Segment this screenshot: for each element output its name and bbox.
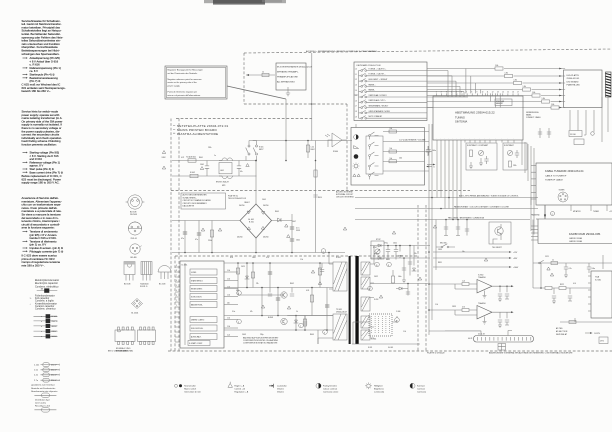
resistor R861 1.8k (505, 74, 513, 77)
bridge diode bottom-right (261, 226, 264, 229)
svg-text:C643: C643 (242, 334, 246, 336)
contrast preset box 1 (466, 143, 497, 170)
svg-text:Luminosità: Luminosità (374, 391, 385, 394)
IC631 right side resistors (224, 271, 238, 273)
svg-text:Helligkeit: Helligkeit (374, 385, 383, 388)
resistor into op-amp2 (462, 309, 469, 312)
svg-text:1.6: 1.6 (355, 100, 357, 102)
control panel rows to bundle (425, 132, 433, 172)
connection cable note (526, 112, 542, 119)
svg-text:SEZIONE AT: SEZIONE AT (556, 333, 568, 336)
svg-text:GRÜN / RGB: GRÜN / RGB (569, 237, 583, 240)
transistor package TO-66 top view (128, 222, 141, 240)
wire into IR preamp with arrow (246, 74, 275, 76)
svg-text:630V~: 630V~ (52, 331, 59, 333)
svg-text:ALT(ERN.) + FERNBEDIENUNG / RE: ALT(ERN.) + FERNBEDIENUNG / REMOTE CONTR… (306, 50, 378, 53)
svg-text:470u: 470u (384, 243, 388, 245)
tuning box top pins (437, 93, 519, 96)
cap C603 (183, 232, 187, 234)
svg-text:U-REF.: U-REF. (191, 272, 197, 274)
svg-text:GRÜN STANDARD / NORM: GRÜN STANDARD / NORM (369, 110, 391, 113)
svg-text:11: 11 (487, 92, 489, 94)
fuse SI602 (190, 174, 198, 177)
cap cluster mid secondary (400, 246, 414, 271)
svg-text:REGELVERST.: REGELVERST. (191, 288, 203, 290)
supply rail +12V (433, 251, 510, 253)
svg-text:500V-: 500V- (52, 336, 58, 338)
rectifier diode D663 (378, 257, 381, 260)
svg-text:1k: 1k (262, 72, 264, 74)
svg-text:SI 602: SI 602 (190, 172, 195, 174)
italian bullet list (23, 230, 65, 254)
svg-text:AUSSCHALT.: AUSSCHALT. (191, 335, 202, 338)
svg-text:GL 2504: GL 2504 (131, 313, 138, 315)
cable bundle verticals (522, 140, 534, 205)
svg-text:misure sul primario dell'alime: misure sul primario dell'alimentatore. (168, 94, 202, 97)
chopper transformer TR631 primary winding upper (333, 262, 347, 291)
gnd stubs under caps cluster (444, 234, 460, 236)
circled test point 6 near opto (395, 318, 400, 323)
IR receiver diode assembly (325, 133, 347, 147)
arrow out of panel (427, 164, 433, 166)
svg-text:Contrasto colore: Contrasto colore (323, 391, 339, 394)
panel resistor 10k a (389, 130, 397, 133)
svg-text:10k: 10k (390, 158, 393, 160)
resistor 1k row (551, 262, 558, 265)
svg-text:15: 15 (507, 92, 509, 94)
svg-text:K-START CONST.: K-START CONST. (189, 342, 203, 345)
op-amp1 gnd pin (483, 291, 487, 299)
svg-text:schwingen des Sperrwandlers.: schwingen des Sperrwandlers. (22, 52, 60, 56)
svg-text:1.8k: 1.8k (505, 73, 508, 75)
cap C608 (290, 239, 294, 241)
svg-text:Regler + A: Regler + A (234, 385, 244, 388)
svg-text:Volume: Volume (277, 389, 285, 391)
switch S89 row (359, 117, 361, 119)
svg-text:FARBE +: FARBE + (369, 83, 376, 86)
svg-text:IC 661: IC 661 (371, 339, 376, 341)
svg-text:LED BOARD: LED BOARD (567, 80, 580, 83)
tuner DIN connector circle (558, 190, 568, 203)
svg-text:10k: 10k (390, 128, 393, 130)
suppression capacitor rows outlined (34, 363, 60, 383)
svg-text:+12: +12 (609, 211, 612, 213)
svg-text:D4/250: D4/250 (263, 237, 269, 239)
symbol sun brightness (353, 163, 360, 170)
svg-text:1.8k: 1.8k (532, 92, 535, 94)
svg-text:CIRCUIT NOT MAINS ISOLATED: CIRCUIT NOT MAINS ISOLATED (183, 199, 212, 202)
svg-text:T2.5A SI 601: T2.5A SI 601 (186, 156, 196, 159)
keyboard switch rows (359, 67, 428, 119)
resistor on branch (314, 170, 317, 177)
svg-text:INFRARED PREAMPL.: INFRARED PREAMPL. (277, 71, 299, 74)
italian tail lines (22, 254, 61, 268)
switch S82 row (359, 80, 361, 82)
svg-text:R601: R601 (199, 157, 203, 159)
svg-text:SEL 830: SEL 830 (440, 243, 446, 245)
keyboard left bus (354, 71, 359, 119)
svg-text:n: n (41, 331, 42, 333)
svg-text:Negative reference point for m: Negative reference point for measure- (168, 78, 203, 81)
svg-text:4.7n: 4.7n (266, 257, 269, 259)
warning triangle mains left 2 (162, 166, 165, 169)
resistor R643 (303, 319, 306, 326)
thyristor symbol on B+ (278, 218, 282, 222)
circled test point 7 (299, 323, 304, 328)
svg-text:1.8/12V: 1.8/12V (594, 333, 601, 335)
svg-text:R605: R605 (275, 211, 279, 213)
distributor note (35, 399, 50, 408)
svg-text:100n: 100n (398, 276, 402, 278)
svg-text:IC 830: IC 830 (478, 274, 483, 276)
svg-text:220k: 220k (208, 147, 212, 149)
svg-text:P-GRÜN - / LAUTST. -: P-GRÜN - / LAUTST. - (369, 73, 386, 76)
svg-text:C 666: C 666 (396, 311, 400, 313)
svg-text:Punto di riferimento negativo: Punto di riferimento negativo per (168, 91, 198, 94)
wire top corner of bridge (255, 161, 257, 205)
connection keyboard bus into tuning left edge (427, 108, 433, 197)
svg-text:power supply.: power supply. (168, 84, 181, 87)
circled test point 1 (237, 291, 242, 296)
junction dots on minus bus (184, 252, 186, 254)
switch S87 row (359, 107, 361, 109)
svg-text:SENDERWAHL / SELECT: SENDERWAHL / SELECT (369, 105, 389, 108)
svg-text:D4/250: D4/250 (237, 237, 243, 239)
panel pot contacts (369, 135, 371, 137)
svg-text:supply range 180 to 260 V AC.: supply range 180 to 260 V AC. (22, 181, 60, 185)
svg-text:TUNER: TUNER (559, 190, 566, 192)
cap blocks bottom right (599, 337, 608, 344)
svg-text:BF 469: BF 469 (131, 257, 137, 259)
circled node a (551, 212, 555, 216)
svg-text:FARBE -: FARBE - (369, 89, 376, 92)
reservoir cap C607 350V (290, 227, 294, 229)
power board left dash-dot edges (171, 119, 179, 352)
transistor package TO-39 top view (130, 244, 142, 259)
bus line colour contrast (355, 208, 538, 210)
warning triangles secondary (379, 225, 436, 298)
svg-text:NULLDURCHG.: NULLDURCHG. (191, 328, 204, 330)
svg-text:250 V~: 250 V~ (52, 321, 59, 323)
selector switch SEL830 (441, 246, 443, 248)
secondary extra verticals (404, 246, 410, 284)
svg-text:17: 17 (517, 92, 519, 94)
svg-text:1.8k: 1.8k (495, 65, 498, 67)
circled test point 2 (237, 319, 242, 324)
cap at left edge of bus region (426, 146, 430, 156)
cap C638 (276, 298, 280, 300)
primary minus bus (172, 252, 345, 254)
svg-text:10: 10 (482, 92, 484, 94)
bottom right wires (560, 318, 612, 322)
op-amp1 output caps (498, 286, 506, 301)
english tail paragraph (22, 174, 62, 185)
svg-text:1.7: 1.7 (355, 106, 357, 108)
svg-text:DALLA RETE: DALLA RETE (183, 205, 195, 208)
IC631 internal function blocks (190, 269, 217, 275)
svg-text:47n: 47n (240, 171, 243, 173)
svg-text:TUNER: TUNER (593, 211, 600, 213)
svg-text:ABSTIMMUNG 29304-015.22: ABSTIMMUNG 29304-015.22 (455, 111, 495, 115)
english bullet list (23, 151, 64, 175)
secondary gnd stubs (388, 256, 396, 260)
scan smudge artifact top edge (204, 0, 286, 5)
suppression component symbol row 1 (34, 394, 56, 396)
KABEL bottom pin MT (570, 205, 572, 211)
svg-text:1.5k: 1.5k (300, 259, 303, 261)
resistors feeding TDA (545, 287, 552, 290)
symbol volume triangle (354, 146, 359, 149)
svg-text:ÜBERW. U-NETZ: ÜBERW. U-NETZ (191, 318, 204, 321)
tuning bottom pin numbers (436, 138, 514, 140)
resistor R640 (310, 295, 313, 302)
extra cap stubs in control area (268, 263, 324, 324)
secondary winding 4 (361, 316, 370, 328)
svg-text:Interruttore di rete: Interruttore di rete (184, 391, 201, 394)
svg-text:BAUTEILE AUF KÜHLKÖRPER MONTIE: BAUTEILE AUF KÜHLKÖRPER MONTIERT (243, 337, 279, 340)
mains input wire L (172, 160, 246, 162)
svg-text:10k: 10k (390, 148, 393, 150)
svg-text:COMPONENTS MOUNTED ON HEATSINK: COMPONENTS MOUNTED ON HEATSINK (243, 339, 279, 342)
secondary smoothing caps (386, 246, 390, 256)
vertical interconnects control section (238, 263, 327, 344)
cap on branch (313, 195, 317, 197)
svg-text:ABST.- SPG./FERNB. ABSTIMMUNG: ABST.- SPG./FERNB. ABSTIMMUNG / TUNING V… (459, 194, 518, 197)
svg-text:IR 660: IR 660 (333, 151, 338, 153)
svg-text:TEL/ BD827: TEL/ BD827 (492, 247, 502, 249)
transistor box T840 (489, 222, 511, 249)
LED board left pin ticks (562, 69, 566, 108)
diode feedback D661 (399, 287, 402, 290)
legend colour contrast (316, 383, 339, 393)
choke DR100 (569, 131, 582, 137)
svg-text:C601: C601 (200, 164, 204, 166)
IC631 left pin bus (184, 263, 186, 345)
control panel box (351, 128, 425, 186)
verticals from tuning pins to buses (437, 143, 461, 220)
module plug box (498, 344, 506, 351)
svg-text:TUNER IF CABLE: TUNER IF CABLE (545, 179, 563, 182)
TDA IC box right edge (588, 271, 612, 318)
wires LED area down to cable box (570, 97, 608, 142)
FARB RGB board box (536, 219, 612, 244)
resistor R864 1.8k (532, 94, 540, 97)
svg-text:R652: R652 (386, 259, 390, 261)
caps cluster right of board separator (444, 220, 469, 236)
cap C635 (268, 272, 272, 274)
bridge rectifier GL601 diamond (240, 204, 272, 238)
svg-text:S 631: S 631 (368, 347, 372, 349)
wires from filter to switch (246, 156, 257, 176)
svg-text:47n: 47n (181, 238, 184, 240)
legend brightness (365, 383, 385, 394)
svg-text:1.3: 1.3 (355, 85, 357, 87)
caution text box ACHTUNG (181, 193, 226, 209)
resistor R636 (236, 268, 239, 274)
diode D641 (294, 320, 299, 323)
warning triangles row above caps (201, 228, 221, 231)
mains filter choke L601 (219, 158, 232, 179)
secondary winding 2 (361, 277, 370, 289)
opto feedback IC dotted box B261 (369, 314, 392, 341)
package 4-pin diamond (131, 299, 143, 315)
tuning board box ABSTIMMUNG (433, 96, 523, 140)
svg-text:4.7u: 4.7u (569, 268, 572, 270)
svg-text:1.8k: 1.8k (523, 86, 526, 88)
svg-text:2SC908: 2SC908 (130, 214, 137, 216)
KABEL TUNER/ZF board box (536, 163, 612, 205)
op-amp IC830a (477, 280, 492, 293)
bridge diode top-right (261, 211, 264, 214)
svg-text:1.3k: 1.3k (227, 270, 230, 272)
svg-text:1.3k: 1.3k (227, 279, 230, 281)
package DIP-16 IC (115, 327, 156, 352)
row under FARB board (533, 262, 612, 264)
svg-text:0.22: 0.22 (181, 157, 184, 159)
gnd symbols secondary (402, 278, 406, 283)
svg-text:100u: 100u (252, 257, 256, 259)
svg-text:ments on the primary side of t: ments on the primary side of the (168, 81, 198, 84)
resistor R641 (318, 268, 321, 275)
svg-text:PLATTE D 29304-E: PLATTE D 29304-E (427, 351, 445, 354)
cap C602 after choke (237, 161, 241, 176)
svg-text:C625: C625 (241, 266, 245, 268)
IR preamplifier board box U-IR (276, 63, 313, 90)
svg-text:auf der Primärseite des Netzte: auf der Primärseite des Netzteils. (168, 72, 199, 75)
secondary winding 5 (361, 330, 370, 340)
svg-text:D4/250: D4/250 (263, 205, 269, 207)
svg-text:1.2k: 1.2k (435, 304, 438, 306)
svg-text:MP3: MP3 (222, 185, 225, 187)
svg-text:13: 13 (497, 92, 499, 94)
svg-text:1.3k: 1.3k (227, 318, 230, 320)
KABEL bottom pin TUNER (590, 205, 592, 211)
leader line from note box to primary ground node (227, 86, 286, 99)
resistor R862 1.8k (514, 81, 522, 84)
resistor R860 1.8k (495, 67, 503, 70)
zener row secondary (412, 268, 417, 271)
svg-text:CONNECT. CABLE: CONNECT. CABLE (526, 116, 542, 119)
svg-text:1N4007: 1N4007 (244, 202, 250, 204)
svg-text:C652: C652 (374, 276, 378, 278)
zener D636 (245, 276, 250, 279)
svg-text:470: 470 (236, 290, 239, 292)
board separator dashed verticals right of transformer (418, 205, 426, 351)
svg-text:Regolatore + A: Regolatore + A (234, 391, 248, 394)
tuning top comb to ladder rows (466, 69, 500, 108)
rectifier diode D662 (378, 244, 381, 247)
bus line brightness (355, 219, 530, 221)
svg-text:COMPONENTI MONTATI SU RADIATOR: COMPONENTI MONTATI SU RADIATORE (243, 342, 278, 345)
svg-text:8.2k: 8.2k (230, 257, 233, 259)
winding taps to rails (370, 246, 374, 339)
svg-text:22k: 22k (256, 283, 259, 285)
chopper transistor T633 (281, 318, 287, 324)
svg-text:Condens. elettrolitico: Condens. elettrolitico (35, 285, 59, 288)
svg-text:L601: L601 (220, 170, 224, 172)
svg-text:Farbsymmetrie: Farbsymmetrie (323, 385, 338, 388)
svg-text:29304-013.01: 29304-013.01 (567, 78, 581, 80)
vertical feeds right (533, 220, 603, 289)
svg-text:KABEL TUNER/ZF 29304-061.04: KABEL TUNER/ZF 29304-061.04 (545, 169, 584, 173)
symbol tone triangle small (353, 174, 360, 177)
panel resistor 10k c (389, 160, 397, 163)
mains switch S601 contacts (246, 141, 258, 156)
svg-text:R922: R922 (560, 284, 564, 286)
resistor R865 1.8k (542, 100, 550, 103)
svg-text:STARTIMPULS: STARTIMPULS (191, 279, 204, 282)
keyboard output bundle verticals (427, 71, 468, 98)
legend contrast (410, 383, 427, 393)
bus line tuning voltage (355, 197, 538, 199)
svg-text:KONTRAST / CONTRAST: KONTRAST / CONTRAST (467, 144, 489, 147)
dropper resistor R602 (307, 141, 309, 159)
svg-text:a: a (552, 214, 553, 216)
svg-text:Distributor dyst: Distributor dyst (35, 399, 50, 402)
service notes italian paragraph (22, 196, 62, 230)
arrow 1.8V (585, 332, 591, 334)
svg-text:P707: P707 (373, 247, 377, 249)
svg-text:bereich 180 bis 260 V~.: bereich 180 bis 260 V~. (22, 89, 52, 93)
cap C641 (325, 305, 329, 307)
svg-text:BU508: BU508 (268, 317, 273, 319)
svg-text:1.8k: 1.8k (514, 80, 517, 82)
svg-text:geänderte zum Interface: geänderte zum Interface (31, 384, 55, 387)
power board top dashed edge (176, 104, 347, 119)
svg-text:ÄNDERUNGEN VORBEHALTEN ALTERA: ÄNDERUNGEN VORBEHALTEN ALTERATIONS RESER… (489, 351, 573, 354)
svg-text:KEYBOARD 29304-071.08: KEYBOARD 29304-071.08 (357, 64, 382, 67)
control panel dashed boundary (171, 104, 440, 191)
svg-text:HELLIGKEIT + / BRIGHT: HELLIGKEIT + / BRIGHT (369, 79, 388, 81)
supply rows with arrows (433, 251, 519, 269)
cap C604 (197, 233, 201, 235)
sheet bottom dashed boundary (168, 350, 612, 352)
svg-text:IR-VORVERSTÄRKER 29304-012.03: IR-VORVERSTÄRKER 29304-012.03 (277, 66, 313, 69)
FARB RGB left pins (531, 226, 538, 240)
extra junction dots bus area (445, 219, 447, 221)
panel wires out (383, 132, 425, 172)
svg-text:40.78: 40.78 (468, 338, 472, 340)
svg-text:CABLE TO TUNER IF: CABLE TO TUNER IF (545, 175, 567, 178)
LED board box (564, 70, 603, 108)
svg-text:wire lucofia: wire lucofia (35, 402, 47, 405)
svg-text:ALL'INFRAROSSO: ALL'INFRAROSSO (277, 81, 295, 84)
svg-text:HELLIGKEIT / BRIGHTNESS / LUMI: HELLIGKEIT / BRIGHTNESS / LUMINOSITA (448, 216, 485, 219)
svg-text:Bauteile mit Funkentstör-: Bauteile mit Funkentstör- (31, 387, 56, 390)
svg-text:R831: R831 (438, 262, 442, 264)
op-amp IC631 outer box (180, 261, 224, 348)
svg-text:400V-: 400V- (52, 326, 58, 328)
warning triangles near reservoir (285, 224, 290, 238)
circled test point 3 on secondary (387, 262, 392, 267)
keyboard rows to resistor ladder (427, 68, 562, 109)
svg-text:TDA4050: TDA4050 (478, 302, 486, 305)
svg-text:TUNING: TUNING (455, 116, 465, 120)
svg-text:100n: 100n (393, 243, 397, 245)
svg-text:1.2: 1.2 (355, 79, 357, 81)
svg-text:41 42 43: 41 42 43 (478, 333, 485, 335)
wire switch up to control line (253, 140, 352, 142)
supply rail +160V (433, 266, 510, 268)
svg-text:1.5: 1.5 (355, 95, 357, 97)
op-amp2 output caps (498, 312, 502, 327)
svg-text:+160V: +160V (513, 267, 519, 269)
svg-text:12: 12 (492, 92, 494, 94)
svg-text:STATION AUF / UP P+: STATION AUF / UP P+ (369, 99, 386, 102)
switch on row (539, 262, 541, 264)
svg-text:1.8k: 1.8k (542, 98, 545, 100)
circled TP D (375, 262, 380, 267)
